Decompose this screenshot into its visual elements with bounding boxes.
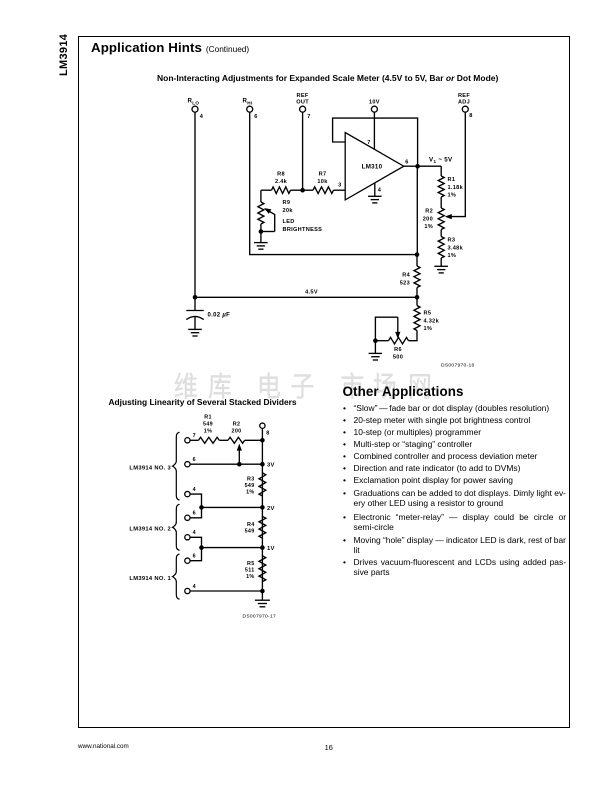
svg-text:1%: 1%: [424, 326, 433, 332]
svg-text:4: 4: [193, 530, 196, 536]
svg-text:549: 549: [203, 421, 213, 427]
svg-text:RHI: RHI: [243, 98, 253, 106]
svg-text:1%: 1%: [204, 428, 212, 434]
svg-text:LED: LED: [283, 219, 295, 225]
svg-text:LM310: LM310: [362, 163, 383, 170]
svg-text:R5: R5: [424, 311, 432, 317]
svg-text:0.02 µF: 0.02 µF: [208, 313, 231, 319]
svg-text:3: 3: [338, 183, 341, 189]
svg-text:DS007970-17: DS007970-17: [243, 614, 276, 620]
svg-text:R2: R2: [233, 421, 241, 427]
svg-text:10k: 10k: [317, 179, 328, 185]
svg-text:6: 6: [405, 159, 408, 165]
svg-text:DS007970-16: DS007970-16: [441, 362, 474, 368]
svg-text:6: 6: [193, 511, 196, 517]
svg-text:R7: R7: [319, 172, 327, 178]
svg-text:523: 523: [400, 280, 410, 286]
svg-text:1.18k: 1.18k: [448, 185, 464, 191]
svg-text:1%: 1%: [246, 490, 254, 496]
svg-text:4: 4: [193, 487, 196, 493]
svg-text:R4: R4: [247, 522, 255, 528]
svg-text:ADJ: ADJ: [458, 100, 470, 106]
svg-text:500: 500: [393, 355, 403, 361]
svg-text:R1: R1: [204, 414, 212, 420]
svg-text:1%: 1%: [448, 253, 457, 259]
svg-text:3.48k: 3.48k: [448, 245, 464, 251]
svg-text:10V: 10V: [369, 100, 380, 106]
svg-text:549: 549: [245, 528, 255, 534]
svg-text:R8: R8: [277, 172, 285, 178]
svg-text:8: 8: [469, 113, 472, 119]
svg-text:R5: R5: [247, 561, 255, 567]
svg-text:4.32k: 4.32k: [424, 318, 440, 324]
svg-text:2.4k: 2.4k: [275, 179, 288, 185]
svg-text:511: 511: [245, 567, 255, 573]
svg-text:R6: R6: [394, 347, 402, 353]
svg-text:1V: 1V: [267, 546, 275, 552]
svg-text:7: 7: [307, 114, 310, 120]
svg-text:OUT: OUT: [296, 100, 309, 106]
svg-text:RLO: RLO: [188, 98, 200, 106]
svg-text:1%: 1%: [424, 224, 433, 230]
svg-text:R9: R9: [283, 200, 291, 206]
svg-text:7: 7: [193, 433, 196, 439]
svg-text:R4: R4: [402, 273, 410, 279]
svg-text:6: 6: [193, 457, 196, 463]
svg-text:R3: R3: [448, 238, 456, 244]
svg-text:1%: 1%: [448, 193, 457, 199]
svg-text:4: 4: [378, 188, 382, 194]
svg-text:7: 7: [367, 140, 370, 146]
svg-text:200: 200: [232, 428, 242, 434]
svg-text:2V: 2V: [267, 506, 275, 512]
svg-text:R1: R1: [448, 177, 456, 183]
svg-text:BRIGHTNESS: BRIGHTNESS: [283, 227, 323, 233]
svg-text:6: 6: [193, 554, 196, 560]
svg-text:1%: 1%: [246, 574, 254, 580]
svg-text:REF: REF: [297, 93, 309, 99]
svg-text:8: 8: [266, 431, 269, 437]
svg-text:3V: 3V: [267, 463, 275, 469]
svg-text:6: 6: [254, 114, 257, 120]
svg-text:200: 200: [423, 216, 433, 222]
svg-text:V1 ~ 5V: V1 ~ 5V: [429, 157, 453, 165]
svg-text:R2: R2: [425, 209, 433, 215]
svg-text:REF: REF: [458, 93, 470, 99]
svg-text:LM3914 NO. 2: LM3914 NO. 2: [129, 527, 171, 533]
svg-text:LM3914 NO. 3: LM3914 NO. 3: [129, 465, 171, 471]
svg-text:R3: R3: [247, 477, 255, 483]
svg-text:4.5V: 4.5V: [305, 290, 318, 296]
svg-text:LM3914 NO. 1: LM3914 NO. 1: [129, 576, 171, 582]
svg-text:4: 4: [193, 584, 196, 590]
svg-text:549: 549: [245, 483, 255, 489]
svg-text:4: 4: [200, 114, 204, 120]
svg-text:20k: 20k: [283, 208, 294, 214]
